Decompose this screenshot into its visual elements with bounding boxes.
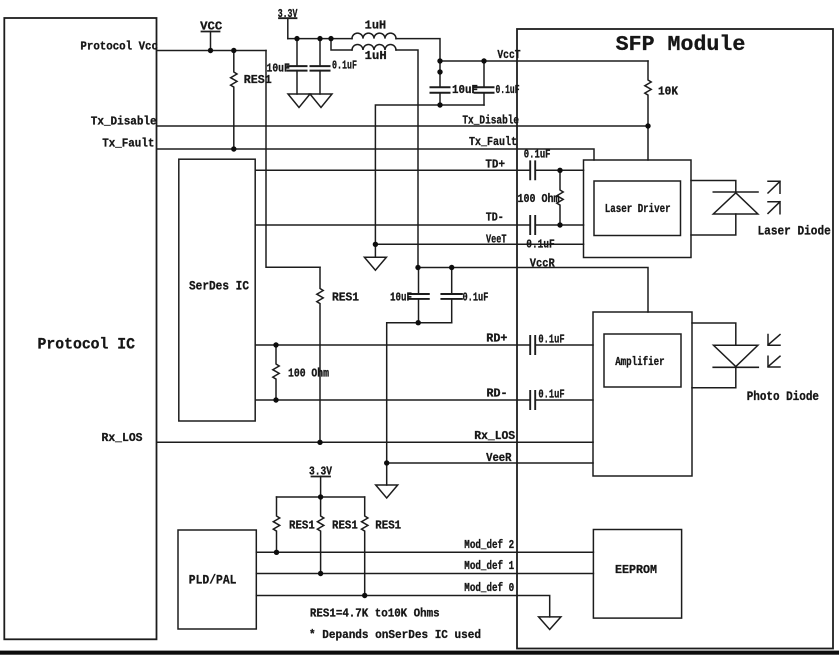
svg-text:3.3V: 3.3V (278, 8, 298, 21)
capacitor C4 plates (475, 87, 494, 93)
svg-text:10uF: 10uF (390, 292, 412, 305)
svg-text:VccR: VccR (530, 258, 555, 271)
node 3.3V rail inductor branch (328, 36, 333, 41)
svg-text:SFP Module: SFP Module (616, 34, 746, 57)
node stray below VccT (437, 69, 442, 74)
wire Mod_def 0 (256, 596, 549, 617)
Amplifier outer box (593, 312, 692, 476)
svg-text:Protocol IC: Protocol IC (38, 336, 136, 354)
svg-text:RES1: RES1 (244, 74, 272, 87)
wire 10K to Laser Driver (647, 126, 649, 160)
inductor L1 1uH top (352, 33, 396, 39)
svg-text:RD-: RD- (487, 388, 508, 401)
node Rx_LOS RES1 (317, 440, 322, 445)
capacitor C2 0.1uF stem (319, 39, 321, 94)
svg-text:RES1=4.7K to10K Ohms: RES1=4.7K to10K Ohms (310, 607, 440, 621)
svg-text:RES1: RES1 (332, 520, 358, 533)
capacitor C7 plates (408, 294, 429, 299)
svg-text:Rx_LOS: Rx_LOS (474, 430, 515, 443)
resistor R 100 Ohm TX (557, 170, 563, 225)
svg-text:1uH: 1uH (365, 50, 387, 63)
wire VeeR (387, 462, 593, 464)
resistor RES1 a (273, 497, 279, 552)
capacitor C3 10uF plates (431, 87, 450, 93)
wire RD+ (256, 344, 593, 346)
svg-text:Photo Diode: Photo Diode (747, 390, 819, 404)
wire L1 output to VccT corner (396, 39, 440, 88)
svg-text:0.1uF: 0.1uF (496, 84, 520, 97)
arrow photo down-left 1 (768, 335, 780, 346)
node VccR 10uF (415, 265, 420, 270)
node Mod_def2 RES1 (274, 550, 279, 555)
ground G3 VeeT (364, 257, 386, 270)
laser diode D1 triangle (713, 193, 758, 214)
Amplifier inner box (604, 334, 681, 387)
laser diode D1 bar (713, 191, 758, 193)
capacitor C6 0.1uF bars (530, 216, 535, 234)
node VccR 0.1uF (449, 265, 454, 270)
wire Mod_def 2 (256, 551, 593, 553)
wire 3.3V rail (288, 38, 352, 40)
wire branch to lower inductor (331, 39, 352, 50)
resistor RES1 mid pullup (317, 267, 323, 442)
svg-text:10K: 10K (658, 86, 678, 99)
Laser Driver inner box (594, 181, 681, 236)
wire Mod_def 1 (256, 573, 593, 575)
node Mod_def1 RES1 (318, 571, 323, 576)
arrow photo down-left 2 (768, 356, 780, 367)
wire VeeR ground stem (386, 463, 388, 485)
node VccT 0.1uF (481, 58, 486, 63)
bottom black bar (0, 651, 839, 655)
capacitor C1 10uF stem (296, 39, 298, 94)
svg-text:RES1: RES1 (332, 292, 359, 305)
wire photo diode bottom (692, 367, 736, 387)
wire RX cap bottoms rail (387, 323, 452, 463)
svg-text:Laser Diode: Laser Diode (758, 225, 831, 239)
svg-text:Laser Driver: Laser Driver (605, 203, 671, 216)
power 3.3V bar bottom (312, 476, 331, 478)
svg-text:0.1uF: 0.1uF (538, 389, 564, 402)
svg-text:Tx_Disable: Tx_Disable (462, 115, 519, 128)
arrow laser up-right 1 (768, 181, 780, 193)
svg-text:VeeT: VeeT (486, 234, 507, 247)
svg-text:TD+: TD+ (485, 158, 505, 171)
arrow laser up-right 2 (768, 202, 780, 214)
svg-text:Tx_Fault: Tx_Fault (102, 138, 154, 151)
svg-text:Protocol Vcc: Protocol Vcc (80, 40, 158, 53)
node VeeR ground (384, 460, 389, 465)
svg-text:0.1uF: 0.1uF (524, 149, 551, 162)
node Tx_Fault RES1 (231, 146, 236, 151)
SFP Module box (517, 29, 833, 649)
node Protocol Vcc / VCC junction (208, 48, 213, 53)
svg-text:PLD/PAL: PLD/PAL (189, 574, 237, 588)
wire Protocol Vcc horizontal (157, 50, 266, 52)
svg-text:100 Ohm: 100 Ohm (288, 368, 329, 381)
svg-text:RD+: RD+ (486, 333, 507, 346)
svg-text:Amplifier: Amplifier (615, 356, 664, 369)
wire VeeT to ground (374, 244, 376, 257)
wire RD- (256, 399, 593, 401)
svg-text:TD-: TD- (486, 212, 504, 225)
EEPROM box (593, 530, 681, 619)
capacitor C7 10uF stems (418, 268, 420, 323)
power 3.3V bar top (279, 17, 297, 19)
svg-text:0.1uF: 0.1uF (332, 60, 357, 73)
resistor RES1 b (317, 497, 323, 574)
photo diode D2 bar (713, 366, 758, 368)
svg-text:Mod_def 2: Mod_def 2 (464, 539, 514, 552)
resistor RES1 c (362, 497, 368, 596)
wire TD- (256, 224, 584, 226)
node 3.3V bottom rail (318, 494, 323, 499)
node RX cap bottom (416, 320, 421, 325)
svg-text:VccT: VccT (497, 49, 520, 62)
wire L2 output down to VccR (396, 50, 418, 268)
SerDes IC box (179, 159, 255, 421)
photo diode D2 triangle (714, 345, 758, 366)
resistor RES1 top pullup (231, 51, 237, 150)
wire Tx_Fault (157, 149, 594, 160)
node VccT left (437, 58, 442, 63)
capacitor C10 0.1uF bars (530, 391, 535, 409)
resistor R 100 Ohm RX (273, 345, 279, 400)
capacitor C3 bottom stem (439, 93, 441, 105)
svg-text:EEPROM: EEPROM (615, 563, 657, 577)
inductor L2 1uH bottom (352, 45, 396, 51)
ground G5 Mod_def0 (539, 617, 561, 630)
wire VeeT (375, 243, 583, 245)
wire VccT rail (440, 60, 648, 62)
capacitor C8 plates (441, 294, 462, 299)
svg-text:VeeR: VeeR (486, 452, 511, 465)
resistor R 10K (645, 61, 651, 126)
wire photo diode top (692, 323, 736, 345)
Protocol IC box (4, 18, 156, 639)
ground G2 (310, 94, 332, 108)
capacitor C1 plates (288, 66, 307, 71)
wire pullup rail (277, 496, 365, 498)
wire Tx_Disable (157, 125, 648, 127)
node Mod_def0 RES1 (362, 593, 367, 598)
svg-text:10uF: 10uF (452, 84, 478, 97)
capacitor C8 0.1uF stems (451, 268, 453, 323)
Laser Driver U-outer box (584, 160, 692, 258)
VCC symbol bar (202, 31, 220, 33)
svg-text:0.1uF: 0.1uF (526, 239, 554, 252)
ground G4 VeeR (376, 485, 398, 498)
svg-text:* Depands onSerDes IC used: * Depands onSerDes IC used (309, 628, 481, 642)
node 3.3V rail 0.1uF (317, 36, 322, 41)
svg-text:Rx_LOS: Rx_LOS (102, 432, 143, 445)
wire 3.3V stem (287, 18, 289, 38)
capacitor C2 plates (311, 66, 330, 71)
node 3.3V rail 10uF (294, 36, 299, 41)
node cap bottom rail (437, 102, 442, 107)
svg-text:Mod_def 1: Mod_def 1 (464, 560, 514, 573)
svg-text:Mod_def 0: Mod_def 0 (464, 582, 514, 595)
wire laser diode bottom (691, 214, 736, 235)
wire 3.3V stem bottom (320, 477, 322, 498)
node TD+ 100ohm (557, 168, 562, 173)
svg-text:Tx_Fault: Tx_Fault (469, 136, 517, 149)
svg-text:0.1uF: 0.1uF (538, 334, 564, 347)
node RD+ 100ohm (273, 342, 278, 347)
capacitor C9 0.1uF bars (530, 336, 535, 354)
svg-text:SerDes IC: SerDes IC (189, 279, 249, 294)
wire TD+ (256, 169, 584, 171)
svg-text:RES1: RES1 (289, 520, 315, 533)
svg-text:0.1uF: 0.1uF (463, 292, 489, 305)
node RES1 top junction (231, 48, 236, 53)
wire VccR rail (418, 268, 648, 313)
svg-text:RES1: RES1 (375, 520, 401, 533)
capacitor C5 0.1uF bars (530, 161, 535, 179)
node Tx_Disable 10K (645, 123, 650, 128)
svg-text:100 Ohm: 100 Ohm (518, 193, 560, 206)
wire Protocol Vcc drop (266, 51, 320, 268)
svg-text:Tx_Disable: Tx_Disable (91, 116, 157, 129)
node VeeT ground (373, 242, 378, 247)
wire Rx_LOS (157, 441, 593, 443)
svg-text:VCC: VCC (200, 21, 222, 34)
svg-text:3.3V: 3.3V (309, 466, 332, 479)
capacitor C4 0.1uF stem (483, 61, 485, 105)
PLD/PAL box (178, 530, 256, 629)
wire cap bottoms rail (375, 105, 484, 244)
wire laser diode top (691, 181, 736, 193)
VCC stem wire (210, 32, 212, 51)
node RD- 100ohm (273, 397, 278, 402)
svg-text:1uH: 1uH (365, 20, 386, 33)
ground G1 (288, 94, 310, 108)
node TD- 100ohm (557, 222, 562, 227)
